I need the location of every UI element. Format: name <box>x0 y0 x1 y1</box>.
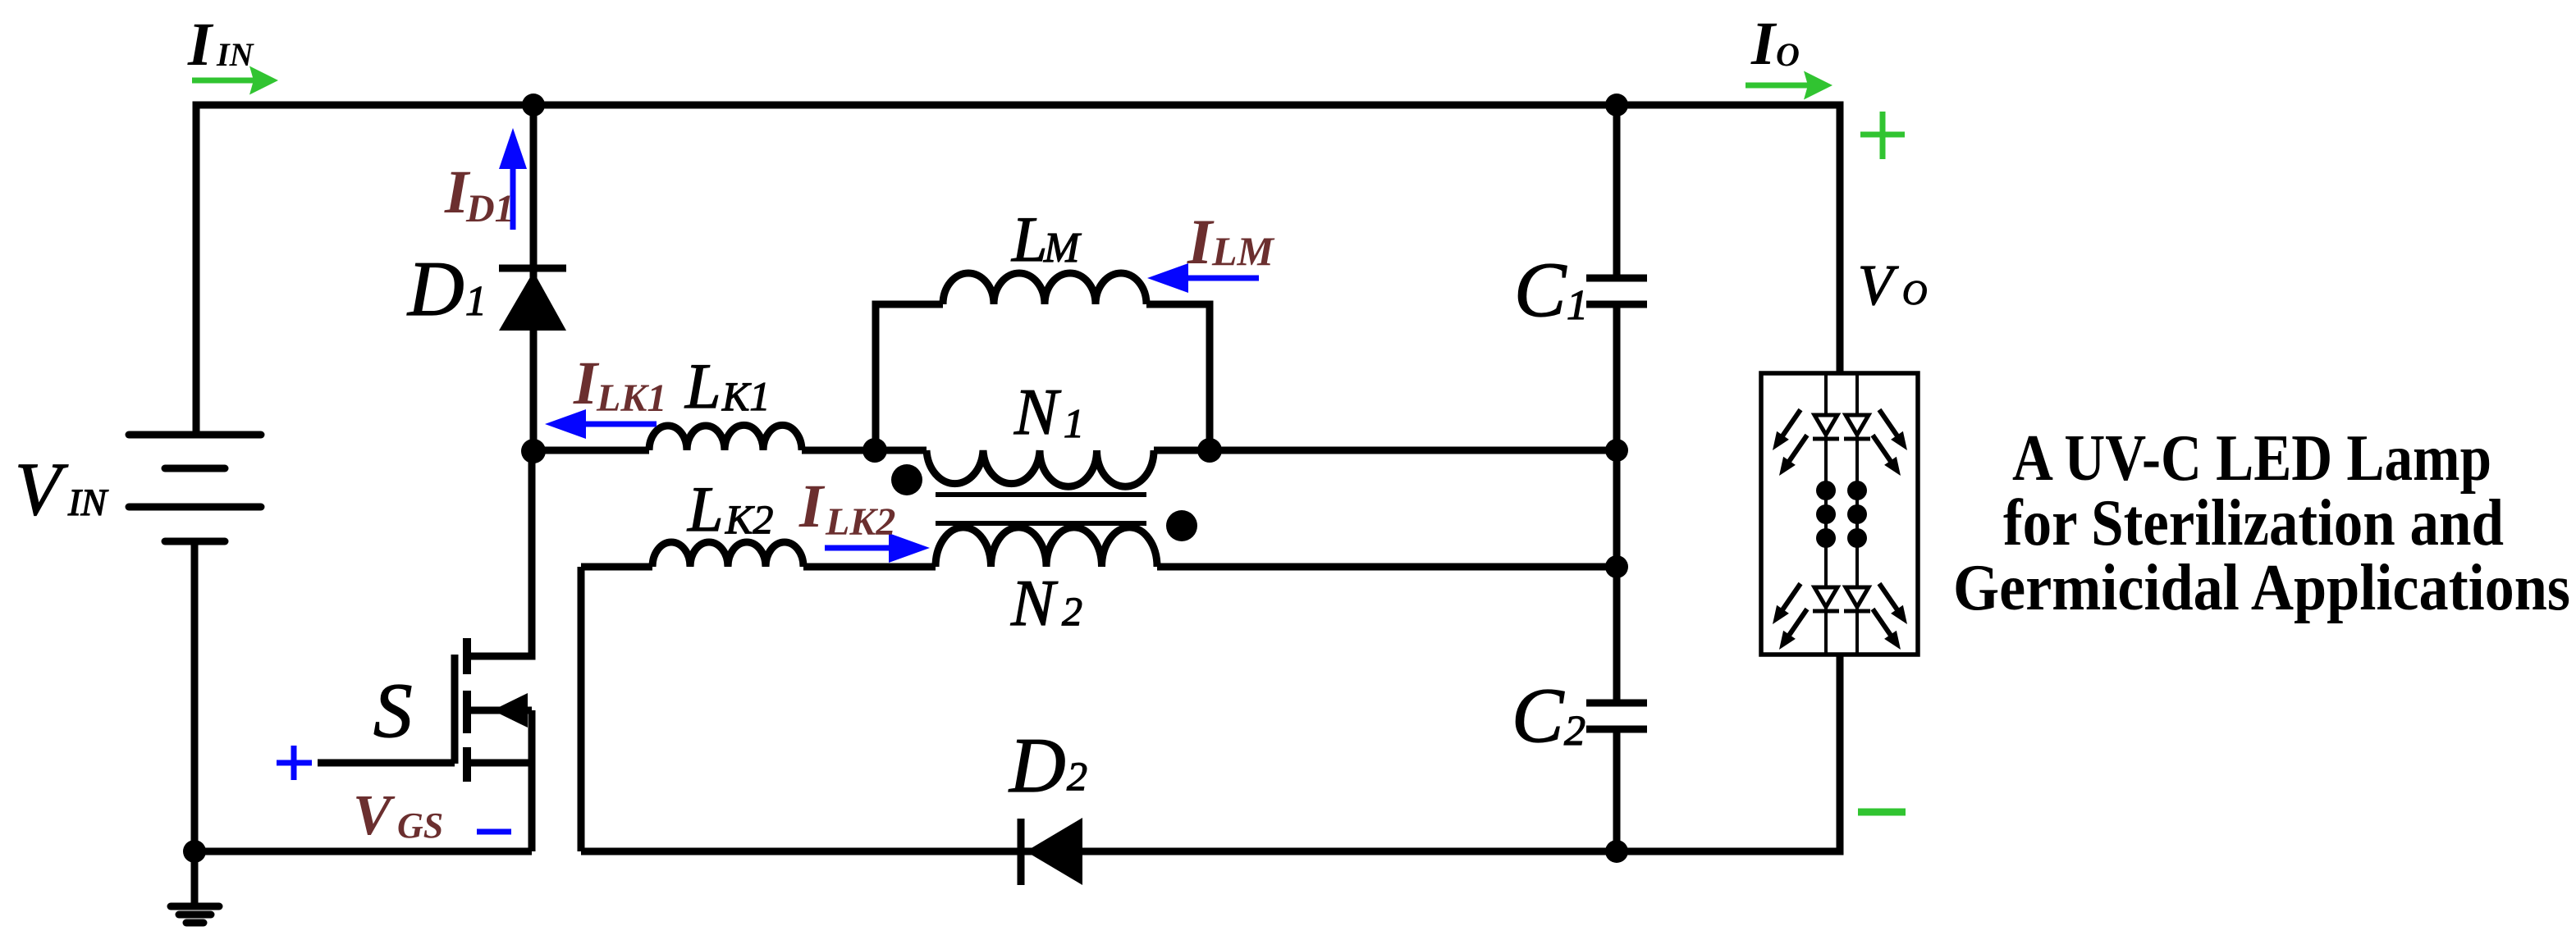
svg-text:I: I <box>1750 10 1778 78</box>
svg-text:2: 2 <box>1062 588 1082 634</box>
svg-text:L: L <box>684 350 721 422</box>
svg-text:1: 1 <box>1064 400 1084 446</box>
svg-text:S: S <box>373 667 413 754</box>
svg-text:1: 1 <box>1567 282 1588 329</box>
svg-text:L: L <box>687 473 723 545</box>
svg-text:D: D <box>1008 722 1066 809</box>
svg-text:M: M <box>1043 225 1082 271</box>
svg-text:L: L <box>1011 203 1047 275</box>
svg-text:1: 1 <box>465 278 487 325</box>
svg-text:O: O <box>1902 275 1927 313</box>
svg-text:C: C <box>1514 246 1567 333</box>
svg-text:A UV-C LED Lamp: A UV-C LED Lamp <box>2012 422 2491 495</box>
svg-text:V: V <box>353 784 396 847</box>
svg-text:K1: K1 <box>721 373 770 419</box>
svg-text:I: I <box>187 11 214 79</box>
svg-text:N: N <box>1010 568 1059 640</box>
svg-text:IN: IN <box>67 481 109 524</box>
svg-text:V: V <box>1858 254 1899 317</box>
svg-text:K2: K2 <box>725 496 773 542</box>
svg-text:O: O <box>1776 36 1800 73</box>
svg-text:D1: D1 <box>465 187 515 230</box>
svg-text:LM: LM <box>1211 228 1275 274</box>
svg-text:for Sterilization and: for Sterilization and <box>2003 487 2504 559</box>
svg-text:LK2: LK2 <box>825 500 895 544</box>
svg-text:2: 2 <box>1067 753 1087 799</box>
svg-text:D: D <box>406 245 464 332</box>
svg-text:LK1: LK1 <box>596 376 666 420</box>
svg-text:I: I <box>1187 206 1215 277</box>
svg-text:2: 2 <box>1564 708 1585 755</box>
svg-text:C: C <box>1512 672 1565 759</box>
svg-text:N: N <box>1013 376 1062 449</box>
svg-text:IN: IN <box>216 36 255 73</box>
svg-text:GS: GS <box>397 805 443 846</box>
svg-text:I: I <box>798 472 826 541</box>
svg-text:V: V <box>15 447 69 531</box>
svg-text:Germicidal Applications: Germicidal Applications <box>1953 552 2570 624</box>
